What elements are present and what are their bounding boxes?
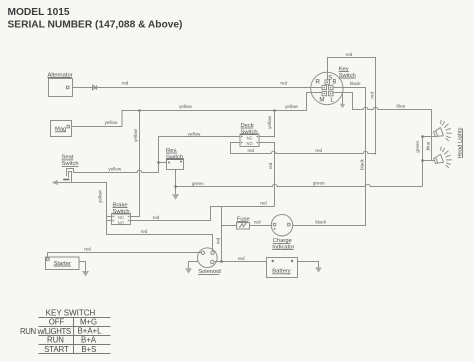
svg-text:yellow: yellow (179, 104, 192, 109)
svg-text:B+A+L: B+A+L (78, 327, 103, 336)
svg-text:green: green (192, 181, 204, 186)
svg-text:red: red (268, 162, 273, 169)
svg-text:red: red (153, 215, 160, 220)
svg-text:red: red (254, 219, 261, 224)
svg-text:M+G: M+G (80, 318, 97, 327)
svg-text:B+A: B+A (81, 336, 97, 345)
svg-text:yellow: yellow (267, 115, 272, 128)
svg-text:MODEL 1015: MODEL 1015 (8, 7, 70, 18)
svg-text:yellow: yellow (108, 166, 121, 171)
svg-text:NC: NC (247, 136, 253, 141)
svg-text:red: red (141, 229, 148, 234)
svg-text:red: red (315, 148, 322, 153)
svg-text:blue: blue (396, 104, 405, 109)
svg-text:blue: blue (425, 141, 430, 150)
svg-text:green: green (415, 140, 420, 152)
svg-text:yellow: yellow (133, 128, 138, 141)
svg-text:red: red (238, 256, 245, 261)
svg-text:red: red (247, 148, 254, 153)
svg-text:black: black (315, 219, 326, 224)
svg-text:B+S: B+S (81, 345, 96, 354)
svg-text:KEY SWITCH: KEY SWITCH (46, 309, 96, 318)
svg-text:black: black (360, 158, 365, 169)
svg-text:M: M (319, 98, 324, 104)
svg-text:red: red (122, 80, 129, 85)
svg-text:red: red (369, 92, 374, 99)
svg-text:RUN: RUN (47, 336, 64, 345)
svg-text:OFF: OFF (49, 318, 65, 327)
svg-text:red: red (346, 52, 353, 57)
svg-text:black: black (350, 81, 361, 86)
svg-text:B: B (332, 79, 336, 85)
svg-text:red: red (280, 80, 287, 85)
svg-text:yellow: yellow (98, 189, 103, 202)
svg-text:RUN w/LIGHTS: RUN w/LIGHTS (20, 327, 71, 336)
svg-text:SERIAL NUMBER (147,088 & Above: SERIAL NUMBER (147,088 & Above) (8, 19, 183, 30)
svg-text:green: green (313, 180, 325, 185)
svg-text:yellow: yellow (105, 120, 118, 125)
svg-text:START: START (44, 345, 69, 354)
svg-text:red: red (84, 247, 91, 252)
svg-text:red: red (260, 201, 267, 206)
svg-text:red: red (216, 237, 221, 244)
svg-text:NO: NO (118, 220, 124, 225)
svg-text:R: R (316, 79, 321, 85)
svg-text:yellow: yellow (285, 104, 298, 109)
svg-text:NO: NO (247, 141, 253, 146)
svg-text:yellow: yellow (188, 131, 201, 136)
